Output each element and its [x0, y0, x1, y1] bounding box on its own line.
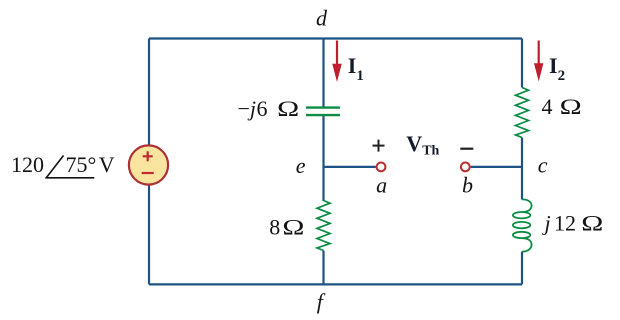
svg-text:e: e — [296, 153, 306, 178]
wire: right branch from inductor bottom to bottom-right corner — [521, 252, 523, 285]
label minus terminal — [460, 148, 473, 150]
voltage source plus sign — [143, 151, 153, 161]
svg-text:d: d — [316, 5, 328, 30]
svg-text:Ω: Ω — [282, 215, 304, 239]
svg-text:12: 12 — [554, 211, 576, 236]
svg-text:f: f — [317, 289, 326, 314]
svg-text:4: 4 — [542, 94, 553, 119]
wire: top from top-left corner to top-right corner through node d — [149, 37, 522, 39]
voltage source minus sign — [142, 172, 154, 174]
terminal a circle — [377, 163, 386, 172]
wire: middle branch from capacitor bottom plate to node e — [322, 116, 324, 202]
current arrow I1 — [332, 41, 341, 83]
capacitor -j6 ohm plates — [306, 108, 340, 116]
svg-text:b: b — [462, 173, 473, 198]
inductor j12 ohm coil — [513, 199, 532, 251]
svg-text:Ω: Ω — [560, 95, 582, 119]
wire: node e to terminal a — [324, 166, 376, 168]
wire: terminal b to node c — [471, 166, 522, 168]
wire: left branch lower (source bottom to bottom-left corner) — [148, 185, 150, 284]
wire: middle branch from 8-ohm resistor bottom to node f — [322, 251, 324, 285]
svg-text:−j: −j — [238, 96, 257, 121]
wire: right branch from top-right corner to 4-ohm resistor — [521, 39, 523, 88]
wire: middle branch from node d down to capacitor top plate — [322, 39, 324, 108]
label 120∠75° V source value — [11, 152, 115, 178]
svg-text:VTh: VTh — [406, 131, 439, 159]
svg-text:Ω: Ω — [581, 211, 603, 235]
svg-text:8: 8 — [269, 214, 280, 239]
terminal b circle — [461, 163, 470, 172]
svg-text:c: c — [538, 153, 548, 178]
svg-text:V: V — [99, 152, 115, 177]
wire: left branch upper (source top to top-left corner) — [148, 39, 150, 145]
wire: bottom from bottom-left corner to bottom-right corner through node f — [149, 283, 522, 285]
resistor 4 ohm zigzag — [516, 88, 529, 138]
svg-text:I1: I1 — [348, 53, 364, 84]
svg-text:a: a — [376, 172, 387, 197]
svg-text:I2: I2 — [549, 53, 565, 84]
current arrow I2 — [534, 41, 543, 82]
voltage source VS circle — [129, 145, 168, 184]
svg-text:6: 6 — [257, 96, 268, 121]
svg-text:75°: 75° — [66, 152, 97, 177]
svg-text:120: 120 — [11, 152, 44, 177]
wire: right branch from 4-ohm resistor to inductor top through node c — [521, 138, 523, 200]
svg-text:Ω: Ω — [277, 97, 299, 121]
resistor 8 ohm zigzag — [317, 201, 330, 251]
label plus terminal — [373, 140, 385, 152]
svg-text:j: j — [542, 211, 551, 236]
